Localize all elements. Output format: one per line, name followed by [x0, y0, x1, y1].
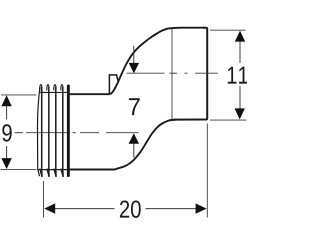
fins connector line bottom	[38, 169, 67, 171]
body top edge	[70, 93, 110, 95]
dim 7 line upper	[133, 46, 135, 64]
fin 1	[40, 85, 42, 91]
label 7	[129, 98, 140, 115]
dim 11 bottom extension	[210, 119, 247, 121]
dim 11 arrow down	[235, 108, 245, 119]
end flange bar	[67, 85, 70, 177]
dim 20 left extension	[43, 181, 45, 218]
bottom S-curve	[70, 120, 176, 170]
dim 7 arrow up	[129, 133, 139, 144]
dim 20 line right	[146, 208, 197, 210]
dim 7 arrow down	[129, 63, 139, 74]
dim 7 line lower	[133, 144, 135, 158]
dim 11 arrow up	[235, 31, 245, 42]
dim 11 line upper	[239, 42, 241, 64]
dim 20 line left	[54, 208, 115, 210]
top S-curve	[110, 28, 204, 95]
sleeve lip outline	[38, 87, 41, 176]
dim 20 arrow left	[44, 203, 55, 213]
fin 3	[54, 85, 56, 91]
fin 4	[61, 85, 63, 91]
centerline left sleeve axis	[15, 132, 139, 134]
dim 11 line lower	[239, 86, 241, 109]
dim 9 top extension	[1, 94, 37, 96]
marker tab	[109, 75, 118, 95]
dim 9 line lower	[6, 146, 8, 159]
fins connector line top	[40, 91, 68, 93]
dim 11 top extension	[210, 29, 246, 31]
centerline right socket axis	[127, 72, 219, 74]
dim 9 arrow up	[1, 95, 11, 106]
fin 2	[47, 85, 49, 91]
dim 9 line upper	[6, 106, 8, 120]
dim 9 arrow down	[1, 158, 11, 169]
label 11	[228, 67, 248, 84]
dim 20 right extension	[206, 124, 208, 218]
socket inner depth line	[171, 29, 173, 120]
socket outline right	[174, 28, 207, 120]
dim 20 arrow right	[196, 203, 207, 213]
dim 9 bottom extension	[1, 169, 37, 171]
label 20	[120, 200, 141, 217]
label 9	[2, 124, 11, 141]
